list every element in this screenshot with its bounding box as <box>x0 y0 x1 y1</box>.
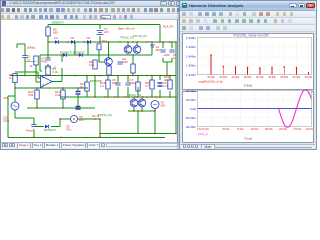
resistor R7 <box>46 66 59 75</box>
svg-text:0.3k: 0.3k <box>53 70 59 74</box>
wire ground rail <box>8 136 165 138</box>
diode D2 <box>71 36 75 44</box>
svg-text:1.390m: 1.390m <box>186 64 197 68</box>
wire <box>61 76 63 82</box>
wire <box>117 87 119 97</box>
capacitor C5 <box>160 50 165 52</box>
svg-text:1.490m: 1.490m <box>186 46 197 50</box>
wire <box>36 88 38 90</box>
wire <box>132 54 134 64</box>
resistor R18 <box>136 82 140 91</box>
svg-text:BZX84CTI BZX84CTI: BZX84CTI BZX84CTI <box>60 51 85 55</box>
svg-text:3.9k: 3.9k <box>28 93 34 97</box>
transistor Q3 <box>124 46 132 54</box>
resistor R11 <box>89 60 97 69</box>
wire <box>159 90 161 97</box>
wire <box>166 62 168 76</box>
wire lower rail <box>60 96 176 98</box>
capacitor C6 <box>169 50 177 60</box>
capacitor C9 <box>112 78 121 85</box>
resistor R12 <box>107 66 111 75</box>
wire <box>127 87 129 97</box>
svg-text:560: 560 <box>53 30 58 34</box>
diode zener D6 <box>79 53 82 57</box>
wire op-amp input line <box>15 71 38 73</box>
svg-text:1k: 1k <box>30 64 33 68</box>
wire <box>61 55 63 62</box>
wire bias row <box>48 41 176 43</box>
svg-text:0.1: 0.1 <box>100 84 104 88</box>
wire <box>162 58 164 62</box>
wire <box>137 87 139 97</box>
svg-text:PUCONL_Gene-xxx.CIR: PUCONL_Gene-xxx.CIR <box>234 34 270 38</box>
wire <box>171 58 173 62</box>
resistor R6 <box>55 90 65 99</box>
wire <box>61 68 63 76</box>
wire <box>107 90 109 97</box>
svg-text:-40.00m: -40.00m <box>185 125 197 129</box>
svg-text:D2: D2 <box>71 36 75 40</box>
wire <box>77 88 79 91</box>
capacitor C6 electrolytic <box>158 81 169 88</box>
wire op-amp output <box>52 81 62 83</box>
svg-text:40.00k: 40.00k <box>269 77 277 80</box>
svg-text:TIP41C_PG: TIP41C_PG <box>98 113 112 117</box>
svg-text:60.00k: 60.00k <box>305 77 313 80</box>
svg-text:D3: D3 <box>87 36 91 40</box>
wire left return <box>7 96 9 137</box>
wire <box>47 25 49 28</box>
wire <box>8 95 15 97</box>
wire <box>33 118 35 124</box>
resistor RL <box>164 75 172 89</box>
wire <box>151 90 153 97</box>
wire <box>132 73 134 76</box>
wire <box>133 97 135 99</box>
diode D3 <box>87 36 91 44</box>
op-amp U1 <box>41 76 53 88</box>
wire <box>133 107 135 111</box>
wire <box>74 42 76 55</box>
wire <box>27 107 95 109</box>
sine burst <box>279 90 312 128</box>
capacitor C11 <box>76 107 81 110</box>
svg-text:Bias = 86 mA: Bias = 86 mA <box>118 27 135 31</box>
svg-text:10V: 10V <box>79 118 84 122</box>
source V6 <box>71 115 85 123</box>
svg-text:220u: 220u <box>3 119 10 123</box>
wire <box>51 126 60 128</box>
svg-text:Pwmr: Pwmr <box>26 129 33 133</box>
svg-text:0.00: 0.00 <box>191 107 197 111</box>
wire <box>25 61 36 63</box>
svg-text:0.00 25.00u: 0.00 25.00u <box>197 130 210 132</box>
wire <box>62 88 64 90</box>
chart1 plot frame <box>198 38 312 75</box>
diode zener D5 <box>63 53 66 57</box>
wire <box>171 42 173 48</box>
svg-text:RL4_PG: RL4_PG <box>163 25 174 29</box>
wire zener row <box>40 54 152 56</box>
svg-text:50.00u: 50.00u <box>223 130 231 132</box>
wire <box>24 58 26 62</box>
wire <box>99 119 101 137</box>
resistor R2 <box>13 74 17 83</box>
svg-text:20.00m: 20.00m <box>186 98 197 102</box>
svg-text:1.340m: 1.340m <box>186 73 197 77</box>
wire <box>159 76 161 81</box>
resistor R16 <box>100 80 110 89</box>
wire <box>40 70 42 72</box>
resistor R15 <box>80 82 89 91</box>
capacitor C7 <box>125 78 136 85</box>
junction dots <box>47 41 48 42</box>
wire <box>154 109 156 134</box>
svg-text:1.540m: 1.540m <box>186 36 197 40</box>
wire <box>14 83 16 103</box>
wire <box>162 42 164 48</box>
svg-text:100n: 100n <box>112 81 119 85</box>
svg-text:20.00k: 20.00k <box>232 77 240 80</box>
svg-text:VOut_jv: VOut_jv <box>198 132 209 136</box>
wire <box>37 72 39 78</box>
transistor Q6 <box>138 99 146 107</box>
svg-text:100n: 100n <box>130 81 137 85</box>
svg-text:16V: 16V <box>104 30 109 34</box>
wire <box>108 42 110 58</box>
capacitor C4 <box>41 57 51 64</box>
wire mid rail <box>10 75 176 77</box>
svg-text:TIP41C_PG: TIP41C_PG <box>120 36 134 40</box>
wire <box>86 91 88 97</box>
wire <box>98 50 100 62</box>
resistor R5 <box>46 27 58 36</box>
wire <box>47 74 49 77</box>
wire <box>127 76 129 83</box>
wire <box>17 43 25 45</box>
svg-text:F [Hz]: F [Hz] <box>244 84 252 88</box>
svg-text:2.9k: 2.9k <box>89 63 95 67</box>
svg-text:BZX84CTI: BZX84CTI <box>44 128 56 132</box>
svg-text:60.00k: 60.00k <box>244 77 252 80</box>
wire <box>99 25 101 30</box>
wire <box>15 117 34 119</box>
svg-text:D1: D1 <box>55 36 59 40</box>
resistor R14 <box>97 44 101 50</box>
svg-text:40.00m: 40.00m <box>186 89 197 93</box>
wire <box>59 119 61 127</box>
svg-text:100.00u: 100.00u <box>251 130 260 132</box>
harmonic stems <box>210 54 212 75</box>
wire feedback row <box>15 87 88 89</box>
wire <box>117 76 119 83</box>
svg-text:75.00u: 75.00u <box>237 130 245 132</box>
wire <box>169 76 171 81</box>
svg-text:150.00u: 150.00u <box>279 130 288 132</box>
wire op-amp input <box>36 81 41 83</box>
svg-text:1n: 1n <box>173 56 177 60</box>
svg-text:100n: 100n <box>122 60 129 64</box>
svg-text:4.7: 4.7 <box>145 84 149 88</box>
chart2 plot frame <box>198 91 312 127</box>
wire <box>35 65 37 83</box>
wire <box>60 118 71 120</box>
wire <box>38 77 41 79</box>
wire <box>87 42 89 55</box>
battery V3 <box>97 27 110 35</box>
wire <box>107 76 109 81</box>
wire <box>47 64 49 66</box>
capacitor C3 <box>76 92 81 95</box>
resistor R3 <box>34 56 38 65</box>
svg-text:R14: R14 <box>102 39 107 43</box>
wire <box>47 36 49 42</box>
transistor Q5 <box>130 99 138 107</box>
capacitor C8 <box>117 57 128 64</box>
wire <box>78 118 101 120</box>
svg-text:00.00k: 00.00k <box>256 77 264 80</box>
svg-text:470u: 470u <box>41 59 48 63</box>
wire <box>151 76 153 81</box>
source VG1 <box>3 96 19 110</box>
wire <box>62 99 64 108</box>
svg-text:30V: 30V <box>156 48 161 52</box>
battery V4 <box>150 45 161 52</box>
svg-text:20V: 20V <box>161 104 166 108</box>
wire <box>16 44 18 48</box>
resistor R4 <box>28 90 39 99</box>
resistor R13 <box>131 64 135 73</box>
transistor Q2 <box>105 58 113 66</box>
diode D1 <box>55 36 59 44</box>
wire <box>24 44 26 56</box>
svg-text:1.440m: 1.440m <box>186 55 197 59</box>
wire <box>86 76 88 83</box>
svg-text:4R: 4R <box>164 78 168 82</box>
wire <box>136 42 138 46</box>
svg-text:(540p): (540p) <box>27 46 35 50</box>
wire output drop <box>175 97 177 134</box>
svg-text:uA741_U1: uA741_U1 <box>44 66 57 70</box>
wire <box>141 107 143 111</box>
svg-text:200.00u: 200.00u <box>306 130 313 132</box>
wire <box>39 55 41 71</box>
svg-text:R6 1k: R6 1k <box>92 114 100 118</box>
diode D4 <box>45 125 48 129</box>
wire <box>99 36 101 42</box>
wire <box>14 110 16 118</box>
wire <box>159 25 161 43</box>
svg-text:47n: 47n <box>66 128 71 132</box>
transistor Q4 <box>133 46 141 54</box>
wire <box>33 129 35 137</box>
wire <box>77 95 79 108</box>
wire emitter join <box>128 110 155 112</box>
svg-text:T [ms]: T [ms] <box>244 137 252 141</box>
wire lower ground rail <box>100 133 176 135</box>
svg-text:BZX84CB: BZX84CB <box>90 79 102 83</box>
svg-text:VF1: VF1 <box>3 96 9 100</box>
svg-text:3.9k: 3.9k <box>55 93 61 97</box>
wire top rail <box>48 24 160 26</box>
source V5 <box>151 101 166 109</box>
wire <box>34 126 44 128</box>
wire <box>127 42 129 46</box>
svg-text:125.00u: 125.00u <box>265 130 274 132</box>
svg-text:-20.00m: -20.00m <box>185 116 197 120</box>
zero line <box>198 108 312 110</box>
wire <box>99 61 104 63</box>
capacitor C13 <box>31 125 36 127</box>
wire <box>141 97 143 99</box>
svg-text:80.00k: 80.00k <box>281 77 289 80</box>
svg-text:20.00k: 20.00k <box>293 77 301 80</box>
wire <box>108 74 110 77</box>
wire <box>47 42 49 58</box>
capacitor C1 <box>22 46 35 58</box>
wire <box>151 42 153 55</box>
svg-text:mag(Rk(VQ2)_jv-9p: mag(Rk(VQ2)_jv-9p <box>198 80 223 84</box>
svg-text:SIP41C_PG: SIP41C_PG <box>127 93 141 97</box>
svg-text:+20V: +20V <box>163 53 170 57</box>
wire <box>24 62 26 76</box>
wire <box>36 99 38 108</box>
wire <box>137 111 139 134</box>
svg-text:175.00u: 175.00u <box>294 130 303 132</box>
wire <box>94 76 96 98</box>
resistor R20 <box>145 80 154 89</box>
wire output line <box>175 42 177 97</box>
wire <box>163 61 172 63</box>
svg-text:BD984CTI: BD984CTI <box>52 21 64 25</box>
wire <box>169 91 171 97</box>
svg-text:TIP+4Q_PC: TIP+4Q_PC <box>133 34 147 38</box>
wire <box>137 76 139 83</box>
